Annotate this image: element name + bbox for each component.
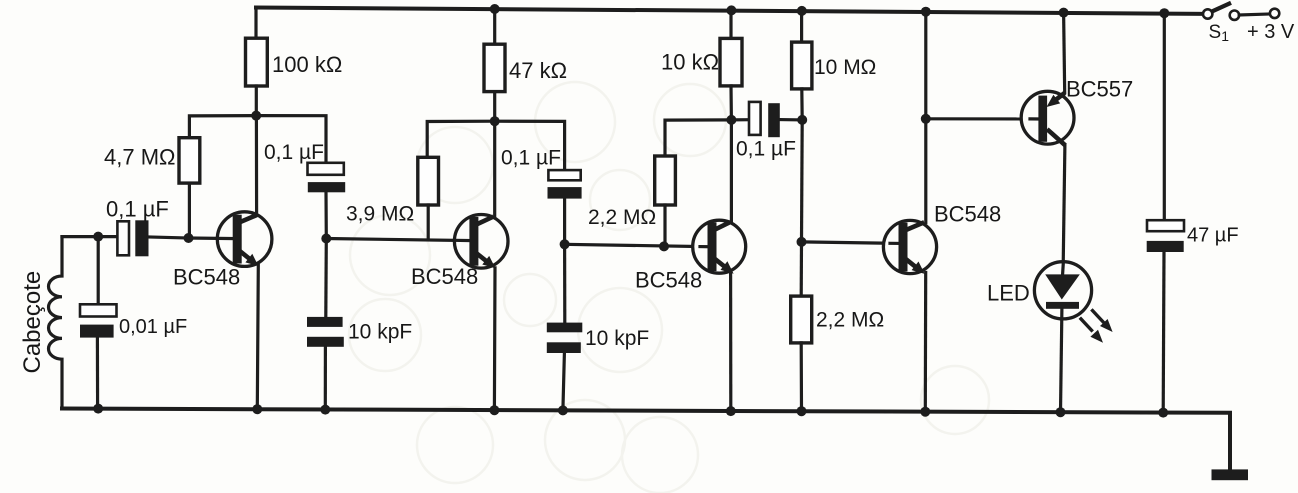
wire input left [62, 235, 117, 238]
svg-text:10 kpF: 10 kpF [585, 327, 649, 350]
wire bottom ground rail [62, 409, 1230, 470]
svg-text:4,7 MΩ: 4,7 MΩ [104, 145, 175, 170]
svg-text:0,1 µF: 0,1 µF [264, 141, 324, 164]
LED arrow 2 [1080, 318, 1103, 343]
switch S1 [1203, 3, 1279, 20]
node C6 ground [558, 405, 568, 415]
resistor R8 2,2 MOhm second [791, 242, 812, 411]
resistor R7 10 MOhm [792, 11, 812, 120]
node base Q4 [797, 237, 807, 247]
svg-text:Cabeçote: Cabeçote [19, 271, 46, 374]
node R8 ground [797, 406, 807, 416]
svg-text:3,9 MΩ: 3,9 MΩ [346, 203, 414, 226]
capacitor C6 10 kpF second [547, 244, 583, 410]
resistor R6 10 kOhm [720, 10, 742, 120]
node R5 base [659, 241, 669, 251]
node emitter Q2 ground [489, 405, 499, 415]
transistor Q4 BC548 [883, 12, 936, 412]
wire top supply rail [256, 8, 1203, 14]
svg-text:47 µF: 47 µF [1187, 225, 1239, 247]
svg-text:0,1 µF: 0,1 µF [736, 138, 796, 161]
transistor Q3 BC548 [693, 120, 746, 411]
faint scan bleed-through ghosts (decorative) [349, 82, 989, 493]
node rail C8 [1159, 8, 1169, 18]
svg-text:BC557: BC557 [1066, 77, 1133, 102]
svg-text:10 kpF: 10 kpF [348, 321, 412, 344]
svg-text:47 kΩ: 47 kΩ [509, 58, 567, 83]
node base Q3 [560, 239, 570, 249]
node C2 ground [93, 404, 103, 414]
node Q4 collector to Q5 base [921, 114, 931, 124]
node rail R7 [797, 6, 807, 16]
node collector Q3 [726, 115, 736, 125]
node C7 R7 [797, 115, 807, 125]
svg-text:0,1 µF: 0,1 µF [501, 147, 561, 170]
resistor R2 4,7 MOhm [179, 138, 200, 238]
wire base Q2 [326, 239, 472, 241]
svg-text:0,01 µF: 0,01 µF [119, 316, 187, 338]
svg-text:2,2 MΩ: 2,2 MΩ [588, 206, 656, 229]
ground [1212, 469, 1249, 480]
wire node to R4 [427, 121, 495, 157]
node emitter Q1 ground [252, 404, 262, 414]
capacitor C4 10 kpF [307, 239, 344, 410]
resistor R1 100 kOhm [246, 8, 268, 116]
resistor R4 3,9 MOhm [418, 157, 439, 238]
inductor Cabecote coil [48, 237, 62, 409]
svg-text:100 kΩ: 100 kΩ [272, 52, 342, 77]
svg-text:BC548: BC548 [934, 202, 1001, 227]
svg-text:10 kΩ: 10 kΩ [661, 50, 719, 75]
svg-text:BC548: BC548 [411, 264, 478, 289]
node rail R3 [490, 4, 500, 14]
node C4 ground [320, 405, 330, 415]
svg-text:BC548: BC548 [635, 268, 702, 293]
node emitter Q4 ground [920, 407, 930, 417]
node base Q1 [184, 233, 194, 243]
capacitor C2 0,01 uF [80, 237, 117, 409]
svg-text:10 MΩ: 10 MΩ [814, 56, 876, 79]
LED arrow 1 [1091, 309, 1112, 332]
capacitor C3 0,1 uF coupling 1-2 [256, 116, 345, 239]
node LED ground [1056, 407, 1066, 417]
transistor Q2 BC548 [454, 121, 508, 410]
resistor R3 47 kOhm [484, 9, 505, 121]
svg-text:+ 3 V: + 3 V [1247, 21, 1295, 43]
resistor R5 2,2 MOhm [655, 120, 732, 246]
capacitor C7 0,1 uF coupling 3-4 [731, 102, 802, 137]
svg-text:0,1 µF: 0,1 µF [106, 197, 169, 222]
capacitor C8 47 uF [1147, 13, 1184, 412]
svg-text:LED: LED [987, 281, 1030, 306]
node emitter Q3 ground [726, 406, 736, 416]
transistor Q1 BC548 [189, 116, 272, 410]
svg-text:BC548: BC548 [173, 265, 240, 290]
node collector Q2 [490, 116, 500, 126]
capacitor C1 0,1 uF input [117, 220, 188, 256]
node rail Q4 collector [921, 7, 931, 17]
capacitor C5 0,1 uF coupling 2-3 [495, 121, 582, 244]
wire base Q3 [565, 244, 710, 246]
node C8 ground [1158, 408, 1168, 418]
wire base Q4 [802, 242, 902, 244]
node rail R6 [726, 5, 736, 15]
node rail Q5 emitter [1059, 8, 1069, 18]
wire R7 node down [800, 120, 804, 242]
node collector Q1 [251, 111, 261, 121]
node input [93, 232, 103, 242]
LED D1 [1034, 262, 1091, 413]
wire base Q5 [926, 117, 1040, 120]
transistor Q5 BC557 [1021, 13, 1074, 265]
svg-text:2,2 MΩ: 2,2 MΩ [816, 309, 884, 332]
wire node to R2 [189, 116, 256, 138]
node base Q2 [321, 234, 331, 244]
